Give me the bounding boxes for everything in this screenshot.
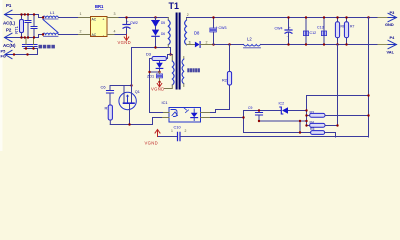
svg-text:D6: D6 — [161, 32, 165, 36]
capacitor CW4 (electrolytic) — [275, 18, 293, 45]
transformer secondary lower winding — [182, 57, 184, 87]
bridge rectifier BR1 — [91, 4, 108, 37]
pin stub BR1 pin1 — [79, 17, 91, 19]
output node wire — [214, 44, 244, 46]
wire choke to BR1 bottom — [59, 34, 79, 36]
inductor L2 — [244, 37, 261, 48]
label 用户共地 — [39, 45, 55, 49]
svg-text:D3: D3 — [146, 51, 151, 56]
svg-text:VGND: VGND — [145, 141, 159, 146]
svg-text:Q1: Q1 — [135, 90, 140, 94]
snubber node dot — [154, 16, 156, 18]
capacitor C1 — [25, 15, 31, 38]
svg-text:C13: C13 — [317, 26, 324, 30]
svg-text:IC2: IC2 — [279, 101, 285, 105]
output rail after L2 — [261, 44, 389, 46]
TL431 IC2 — [279, 101, 289, 114]
capacitor CW2 (bulk electrolytic) — [123, 18, 138, 35]
resistor R7 — [344, 18, 354, 45]
svg-text:P2: P2 — [6, 28, 12, 33]
svg-text:C10: C10 — [174, 124, 182, 129]
svg-text:VGND: VGND — [118, 40, 132, 45]
svg-text:AC: AC — [92, 33, 97, 37]
resistor R5 — [310, 127, 336, 137]
wire aux top — [171, 48, 173, 55]
junction dots feedback — [242, 94, 369, 133]
port P1 AC(L) — [3, 3, 15, 25]
transformer aux winding — [165, 55, 175, 89]
junction dots input section — [13, 13, 44, 55]
capacitor C9 (feedback) — [248, 106, 263, 121]
capacitor C2 — [31, 15, 37, 38]
capacitor C11 (first output cap) — [210, 18, 227, 45]
svg-text:VAL: VAL — [387, 49, 395, 54]
diode D6 (clamp) — [152, 30, 166, 37]
power port VGND (aux) — [151, 82, 165, 92]
wire GND drop (right) — [368, 18, 370, 138]
svg-text:AC(L): AC(L) — [3, 20, 15, 25]
svg-text:2: 2 — [185, 129, 187, 133]
diode D8 (output rectifier) — [189, 31, 214, 48]
svg-text:2: 2 — [206, 40, 208, 44]
transformer core — [177, 14, 180, 89]
svg-text:L2: L2 — [247, 37, 252, 42]
wire BR1+ to primary rail — [119, 17, 168, 19]
pin stub BR1 pin4 — [108, 34, 116, 36]
optocoupler IC1 — [162, 100, 201, 122]
zener D5 (clamp) — [152, 21, 166, 28]
primary ground rail — [110, 118, 162, 125]
svg-text:GND: GND — [385, 22, 394, 27]
svg-text:ZD1: ZD1 — [147, 75, 154, 79]
varistor RT1 — [14, 15, 24, 38]
svg-text:T1: T1 — [169, 1, 180, 11]
wire C9 bottom row — [259, 120, 307, 122]
zener ZD1 — [147, 72, 163, 83]
wire drain net (transformer bottom to mosfet) — [132, 47, 171, 49]
wire aux rail to opto — [150, 112, 163, 114]
pin stub BR1 pin2 — [79, 34, 91, 36]
pin stub opto right pins — [201, 113, 211, 118]
resistor R6 — [335, 18, 345, 45]
svg-text:VGND: VGND — [151, 87, 165, 92]
transformer primary winding — [168, 18, 170, 48]
wire N input — [13, 35, 43, 38]
label 反激变压器 — [187, 68, 200, 72]
secondary GND rail (top) — [187, 17, 389, 19]
resistor R2 (opto series) — [222, 45, 232, 86]
port P4 VAL — [378, 35, 397, 55]
svg-text:AC(N): AC(N) — [3, 43, 16, 48]
wire BR1- to VGND — [115, 34, 127, 36]
wire opto LED return — [211, 117, 244, 119]
svg-text:AC: AC — [92, 18, 97, 22]
junction dots output rails — [212, 16, 369, 45]
svg-text:CW4: CW4 — [275, 27, 283, 31]
earth bus wire — [8, 49, 38, 55]
svg-text:IC1: IC1 — [162, 100, 168, 105]
wire snubber vertical — [155, 18, 157, 48]
wire L input — [13, 15, 43, 18]
pin stub opto left pins — [163, 113, 170, 118]
svg-text:1: 1 — [80, 12, 82, 16]
common-mode choke L1 — [43, 10, 59, 37]
svg-text:R7: R7 — [350, 25, 354, 29]
svg-text:R2: R2 — [222, 78, 227, 82]
svg-text:BR1: BR1 — [95, 4, 104, 9]
svg-text:+: + — [127, 20, 129, 24]
wire aux node — [150, 71, 160, 73]
svg-text:P4: P4 — [390, 35, 396, 40]
mosfet Q1 — [119, 48, 140, 125]
resistor R1 — [105, 105, 113, 125]
feedback upper bracket wire — [307, 96, 369, 126]
svg-text:C9: C9 — [248, 106, 252, 110]
svg-text:1: 1 — [189, 40, 191, 44]
svg-text:CW3: CW3 — [219, 26, 227, 30]
svg-text:L1: L1 — [50, 10, 55, 15]
transformer secondary winding — [185, 13, 195, 45]
power port VGND (C10) — [145, 130, 161, 146]
port P2 AC(N) — [3, 28, 16, 49]
port P3 GND — [378, 10, 397, 27]
capacitor C6 (snubber RC) — [101, 84, 133, 105]
diode D4 (aux rectifier) — [156, 61, 163, 73]
svg-text:4: 4 — [114, 30, 116, 34]
svg-text:CW2: CW2 — [130, 21, 138, 25]
capacitor CY2 (to earth) — [30, 38, 37, 49]
wire choke to BR1 top — [59, 17, 79, 19]
capacitor C13 — [317, 18, 327, 45]
svg-text:RT1: RT1 — [14, 25, 19, 34]
svg-text:D8: D8 — [194, 31, 200, 36]
svg-text:C12: C12 — [310, 31, 317, 35]
svg-text:C6: C6 — [101, 85, 107, 90]
capacitor C10 — [158, 124, 369, 140]
wire TL431 row — [244, 110, 307, 112]
wire opto LED anode from R2 — [211, 85, 230, 113]
resistor D3 (startup, aux) — [146, 51, 171, 112]
svg-text:D5: D5 — [161, 21, 165, 25]
svg-text:3: 3 — [114, 12, 116, 16]
svg-text:2: 2 — [187, 13, 189, 17]
capacitor C12 — [303, 18, 316, 45]
port P5 FG — [1, 49, 14, 59]
power port VGND (at BR1 minus) — [118, 35, 132, 45]
wire feedback left drop — [244, 111, 311, 133]
pin stub BR1 pin3 — [108, 17, 120, 19]
capacitor CY1 (to earth) — [23, 38, 30, 49]
svg-text:1: 1 — [171, 129, 173, 133]
svg-text:P1: P1 — [6, 3, 12, 8]
resistor R4 — [307, 45, 338, 128]
resistor R3 — [307, 111, 369, 118]
svg-text:2: 2 — [80, 30, 82, 34]
